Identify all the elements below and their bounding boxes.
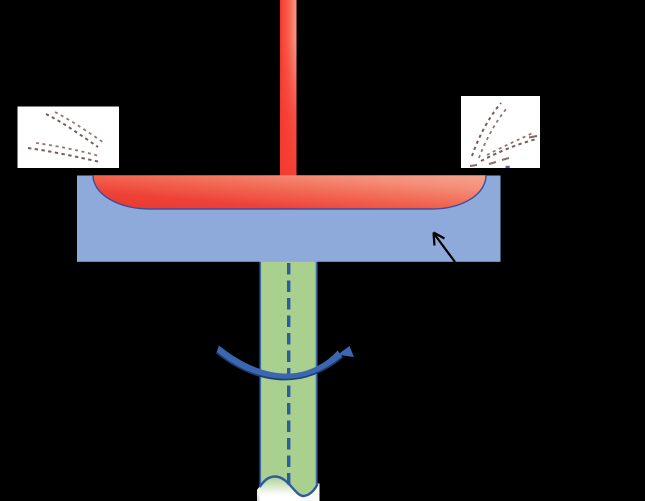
white torn-edge patch below shaft [257,476,320,501]
feed rod (red) [280,0,297,181]
right spray band lower [481,139,537,161]
rotation arrow band [217,346,343,380]
left spray box [18,107,120,169]
right spray stray dashes bottom [470,158,509,166]
wavy break line [260,477,318,497]
right spray box [461,96,540,168]
rotation arrow dark under-edge [217,353,343,380]
rotation axis dashed line [287,263,290,486]
left spray band upper [46,114,98,147]
right spray band steep [472,103,501,156]
spindle shaft (green) [260,261,318,496]
liquid bottom outline [93,175,486,209]
dish (sample holder, blue) [77,176,501,262]
molten liquid (red) [93,175,486,209]
pointer arrow shaft [434,233,456,262]
blue speck at right box bottom [506,166,510,168]
shaft left border [259,261,261,487]
left spray band lower [28,148,100,162]
right spray band steep second row [479,108,507,158]
rotation arrowhead [338,346,355,357]
shaft right border [316,261,318,484]
left spray band lower second row [36,143,99,156]
green fade below wavy break [260,477,304,501]
right spray band lower second row [487,133,533,155]
pointer arrow barb right [434,233,445,239]
pointer arrow barb left [434,233,435,246]
feed rod lower uniform red overlay [280,40,297,181]
left spray band upper second row [55,112,104,143]
right spray stray dash far right [529,136,537,138]
